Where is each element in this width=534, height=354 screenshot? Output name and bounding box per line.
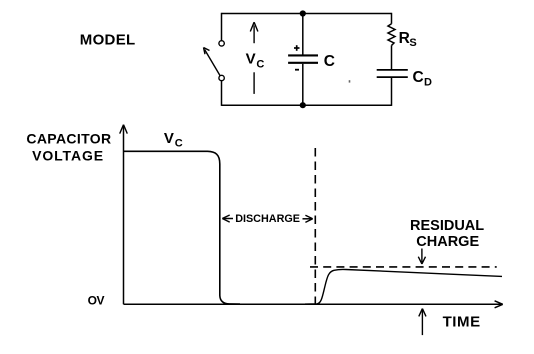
svg-text:MODEL: MODEL	[80, 31, 136, 48]
svg-text:VOLTAGE: VOLTAGE	[32, 147, 104, 163]
label TIME	[443, 313, 481, 330]
capacitor CD	[377, 70, 408, 77]
label RESIDUAL CHARGE	[410, 218, 484, 250]
label VC on curve	[164, 130, 183, 149]
polarity minus	[295, 69, 299, 71]
wire capacitor C branch lower	[302, 64, 304, 105]
curve VC discharge	[124, 151, 241, 304]
axis Y	[120, 125, 128, 305]
label CD	[413, 69, 433, 88]
node junction top	[300, 10, 306, 16]
label C	[324, 53, 335, 70]
dashed line horizontal residual level	[310, 266, 497, 268]
wire right upper segment	[391, 13, 393, 24]
svg-text:C: C	[324, 53, 335, 70]
annotation DISCHARGE left arrow	[222, 215, 233, 222]
dashed line vertical	[314, 148, 316, 304]
label CAPACITOR VOLTAGE	[26, 131, 111, 164]
wire capacitor C branch upper	[302, 14, 304, 55]
node VC arrow	[250, 22, 258, 43]
polarity plus	[294, 45, 300, 51]
svg-text:OV: OV	[88, 294, 105, 308]
label OV	[88, 294, 105, 308]
wire right middle segment	[391, 45, 393, 69]
svg-text:CAPACITOR: CAPACITOR	[26, 131, 111, 147]
capacitor C	[288, 55, 318, 62]
resistor RS	[388, 24, 395, 46]
curve residual charge	[305, 269, 502, 304]
svg-text:S: S	[409, 37, 416, 49]
svg-text:C: C	[256, 59, 264, 71]
svg-text:R: R	[399, 30, 410, 47]
svg-text:D: D	[424, 76, 432, 88]
wire bottom	[222, 104, 392, 106]
label RS	[399, 30, 417, 49]
label DISCHARGE	[235, 213, 300, 225]
label MODEL	[80, 31, 136, 48]
svg-text:V: V	[164, 130, 174, 147]
node junction bottom	[300, 102, 306, 108]
speck artifact	[349, 80, 351, 82]
svg-text:C: C	[413, 69, 424, 86]
wire top	[222, 13, 392, 15]
svg-text:V: V	[246, 51, 256, 68]
label VC	[246, 51, 265, 71]
switch S1	[204, 41, 225, 81]
svg-text:CHARGE: CHARGE	[416, 234, 479, 250]
svg-text:C: C	[175, 137, 183, 149]
wire VC lower tick	[253, 72, 255, 94]
svg-text:RESIDUAL: RESIDUAL	[410, 218, 484, 234]
annotation time up arrow	[419, 309, 426, 336]
annotation residual down arrow	[418, 249, 425, 265]
wire left lower segment	[221, 81, 223, 106]
svg-text:TIME: TIME	[443, 313, 481, 330]
svg-text:DISCHARGE: DISCHARGE	[235, 213, 300, 225]
annotation DISCHARGE right arrow	[303, 215, 313, 222]
wire right lower segment	[391, 78, 393, 106]
axis X with TIME arrow	[124, 301, 503, 308]
wire left upper segment	[221, 13, 223, 41]
